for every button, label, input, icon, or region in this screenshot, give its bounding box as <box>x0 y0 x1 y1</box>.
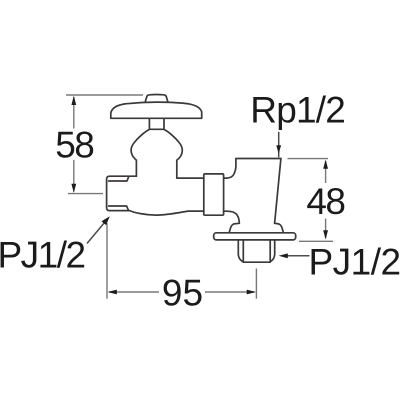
dim 95 right extension line <box>255 269 257 299</box>
dim 48 vertical line <box>325 161 327 238</box>
arrowhead Rp1/2 down <box>276 145 281 154</box>
arrowhead PJ1/2 left diagonal <box>102 216 110 225</box>
handle cap <box>145 95 168 103</box>
hex nut facet line left <box>242 240 244 262</box>
bonnet bell right <box>164 129 182 178</box>
handle dome <box>111 102 202 118</box>
body top-left outline <box>107 176 137 210</box>
arrowhead 95 left <box>108 290 117 295</box>
body left lip top <box>109 176 129 181</box>
riser base step right <box>275 223 284 232</box>
dim 58 top extension line <box>66 94 143 96</box>
bonnet bell left <box>131 129 149 176</box>
riser base step left <box>229 223 239 232</box>
dim 95 horizontal line <box>109 291 255 293</box>
svg-text:95: 95 <box>162 273 203 314</box>
arrowhead 48 down <box>323 230 328 239</box>
body bottom wavy edge <box>130 211 204 216</box>
arrowhead PJ1/2 right <box>279 253 288 258</box>
body left lip bottom <box>109 206 129 210</box>
svg-text:PJ1/2: PJ1/2 <box>309 241 400 282</box>
handle stem neck <box>149 118 164 129</box>
hex nut left side with chamfer <box>238 240 243 262</box>
dim 58 vertical line <box>73 97 75 192</box>
riser right edge <box>275 159 281 224</box>
svg-text:PJ1/2: PJ1/2 <box>0 234 85 275</box>
svg-text:48: 48 <box>306 181 344 222</box>
svg-text:58: 58 <box>55 125 93 166</box>
dim 95 left extension line <box>106 223 108 299</box>
pipe bottom fillet into riser <box>224 211 240 223</box>
leader line Rp1/2 <box>278 132 280 158</box>
hex nut bottom edge <box>243 261 270 263</box>
arrowhead 58 up <box>71 96 76 105</box>
arrowhead 95 right <box>247 290 256 295</box>
pipe top fillet into riser <box>224 159 236 178</box>
svg-text:Rp1/2: Rp1/2 <box>250 89 345 130</box>
flange plate <box>214 233 296 240</box>
arrowhead 58 down <box>71 184 76 193</box>
body top edge right of bonnet <box>177 177 204 179</box>
arrowhead 48 up <box>323 160 328 169</box>
hex nut right side with chamfer <box>270 240 275 262</box>
leader line PJ1/2 left <box>87 223 105 244</box>
leader line PJ1/2 right <box>287 255 310 257</box>
dim 48 top extension line <box>288 158 329 160</box>
dim 58 bottom extension line <box>68 193 103 195</box>
coupling nut rectangle <box>204 174 224 215</box>
hex nut facet line right <box>269 240 271 262</box>
dim 48 bottom extension line <box>299 240 333 242</box>
riser top edge <box>236 158 281 160</box>
